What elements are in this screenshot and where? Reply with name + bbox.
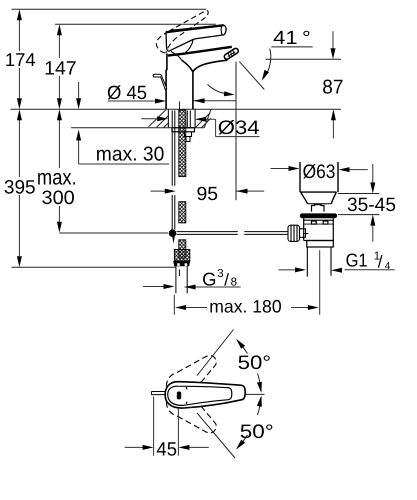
pop-up waste plug: [300, 162, 338, 204]
50deg lower arc: [238, 397, 262, 448]
angle leg lower: [197, 413, 235, 458]
supply pipe: [176, 266, 187, 293]
max300 reference line to rod joint: [59, 232, 168, 234]
dimension Ø34: [141, 119, 259, 137]
waste bottom collar: [307, 241, 334, 248]
waste body: [304, 218, 334, 240]
svg-text:8: 8: [231, 276, 237, 288]
top-view handle outer: [165, 382, 245, 408]
41deg arc left piece: [208, 84, 230, 94]
dimension max.300 vertical: [58, 115, 60, 227]
counter deck top line: [11, 108, 342, 110]
flow diagonal 41deg: [239, 62, 264, 90]
handle pin: [151, 392, 166, 395]
G3/8 nut: [173, 261, 190, 266]
handle dark mark: [177, 392, 181, 400]
pull rod vertical: [172, 111, 175, 230]
counter deck bottom line: [71, 127, 204, 129]
dimension 174 extension line top: [12, 8, 207, 10]
dimension 395 vertical: [18, 115, 20, 262]
svg-text:G1: G1: [346, 250, 368, 271]
centerline right: [246, 393, 265, 395]
svg-text:50°: 50°: [240, 421, 274, 443]
svg-text:max. 180: max. 180: [209, 297, 281, 317]
svg-text:95: 95: [197, 184, 219, 205]
svg-text:max. 30: max. 30: [96, 144, 165, 166]
svg-text:G: G: [202, 268, 216, 289]
pull rod lower tip: [172, 237, 175, 244]
dimension 147 vertical: [58, 29, 60, 104]
deck hole edges: [168, 109, 195, 128]
dimension 87: [332, 31, 334, 138]
lever handle solid: [166, 25, 226, 51]
braided supply hose: [179, 110, 186, 258]
waste tailpipe: [307, 247, 331, 277]
dimension max.180: [174, 250, 319, 315]
svg-text:Ø 45: Ø 45: [107, 83, 147, 104]
angle leg upper: [197, 330, 234, 376]
svg-text:45: 45: [156, 440, 177, 461]
faucet spout: [168, 47, 232, 72]
deck hatch left: [149, 110, 169, 128]
hose end collar: [174, 250, 189, 262]
dimension 45 bottom: [125, 397, 209, 456]
dashed raised lever: [156, 11, 208, 53]
bottom reference line: [12, 266, 176, 268]
handle top tick: [185, 387, 188, 404]
rod joint dot: [169, 229, 177, 237]
50deg upper arc: [238, 341, 262, 392]
svg-text:Ø63: Ø63: [303, 161, 336, 183]
svg-text:174: 174: [5, 49, 36, 70]
faucet body: [166, 54, 193, 110]
svg-text:max.: max.: [37, 164, 77, 189]
svg-text:/: /: [378, 253, 383, 272]
svg-text:87: 87: [322, 77, 343, 99]
svg-text:395: 395: [4, 178, 36, 199]
svg-text:300: 300: [42, 188, 75, 209]
mounting nut steps: [185, 132, 192, 142]
svg-text:41 °: 41 °: [273, 28, 311, 49]
second tube in hole: [187, 111, 190, 128]
knurled nut on waste: [288, 225, 308, 241]
mounting washer: [172, 128, 195, 132]
deck hatch right: [196, 110, 211, 128]
plug stem guide: [312, 205, 325, 212]
dimension 174 vertical: [18, 14, 20, 104]
dimension 95: [151, 190, 265, 192]
waste seal flange: [300, 213, 337, 218]
svg-text:/: /: [224, 270, 229, 289]
svg-text:35-45: 35-45: [347, 195, 396, 216]
horizontal rod to waste: [177, 232, 289, 235]
top-view handle inner: [168, 386, 232, 405]
dimension Ø63: [271, 169, 368, 170]
top-view dashed handle lower (-50): [167, 394, 217, 433]
dimension 35-45: [338, 164, 379, 242]
aerator vertical extension line: [235, 62, 237, 201]
svg-text:3: 3: [217, 268, 223, 280]
dimension Ø45: [108, 100, 236, 102]
svg-text:50°: 50°: [238, 352, 272, 374]
svg-text:147: 147: [44, 59, 76, 80]
dimension 147 extension line: [55, 23, 216, 25]
dimension max.30: [79, 82, 170, 164]
pull-rod knob: [153, 74, 167, 89]
aerator: [224, 48, 238, 59]
dimension G3/8: [143, 286, 241, 289]
faucet centerline stub: [179, 102, 181, 110]
top-view dashed handle upper (+50): [167, 355, 217, 394]
svg-text:Ø34: Ø34: [218, 117, 260, 139]
